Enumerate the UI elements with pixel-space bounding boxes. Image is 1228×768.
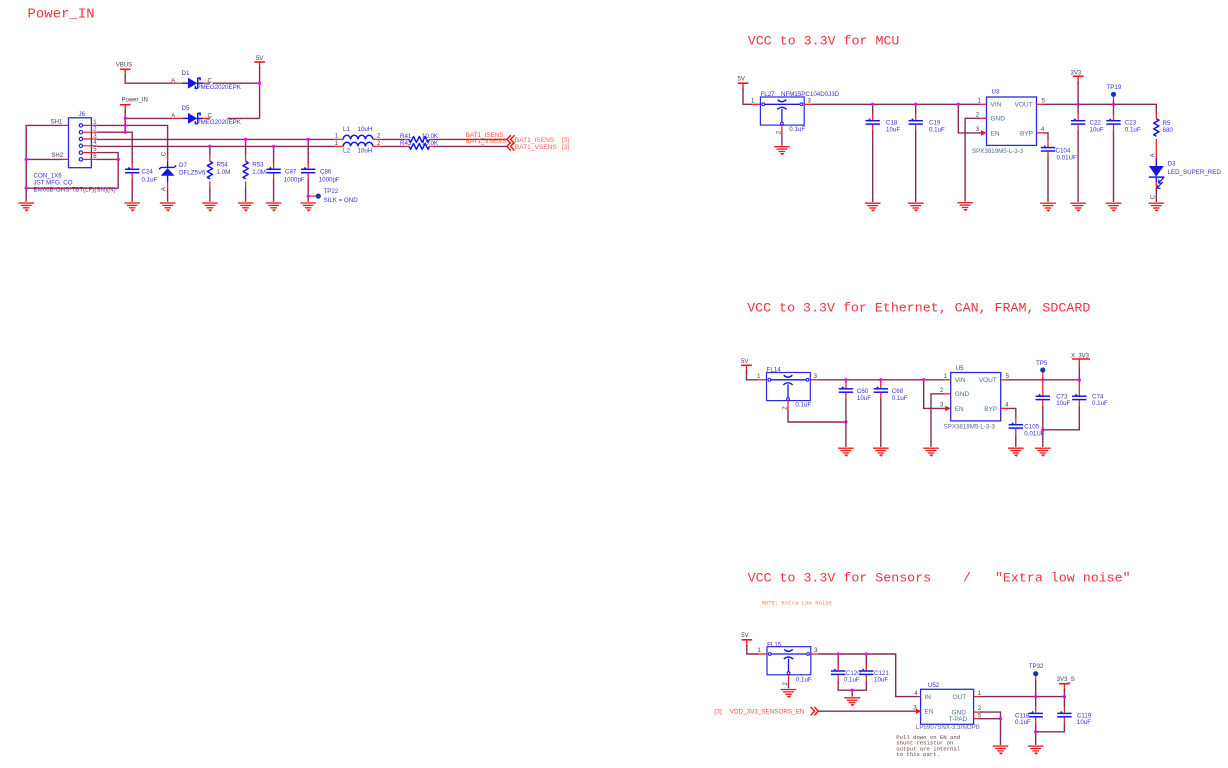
- wire BYP to C104: [1043, 133, 1048, 141]
- svg-text:C24: C24: [142, 169, 154, 176]
- svg-text:1: 1: [335, 133, 339, 139]
- svg-text:C: C: [1151, 194, 1157, 199]
- resistor R53 1.0M: [243, 155, 266, 187]
- resistor R43 10.0K: [400, 140, 439, 149]
- wire C73 to ground: [1042, 406, 1044, 447]
- power flag 3V3: [1071, 71, 1084, 84]
- wire VBUS to D1 anode: [125, 76, 172, 84]
- ground C68: [873, 448, 889, 456]
- svg-text:5V: 5V: [738, 77, 745, 83]
- wire R54 to ground: [209, 188, 211, 202]
- junction X_3V3: [1078, 378, 1081, 381]
- svg-text:10uF: 10uF: [857, 395, 871, 402]
- ground C73: [1035, 448, 1051, 456]
- port VDD_3V3_SENSORS_EN: [714, 707, 818, 716]
- svg-text:LED_SUPER_RED: LED_SUPER_RED: [1168, 169, 1222, 176]
- wire C120/C121 join to ground: [838, 681, 866, 697]
- svg-text:D5: D5: [182, 105, 190, 112]
- svg-text:J6: J6: [79, 111, 86, 118]
- wire Power_IN vertical: [125, 111, 172, 133]
- regulator U5 SPX3819M5-L-3-3: [940, 365, 1010, 431]
- svg-text:0.1uF: 0.1uF: [844, 677, 860, 684]
- ground C24: [124, 203, 140, 211]
- wire C60 to ground: [845, 399, 847, 448]
- wire C60 drop: [845, 380, 847, 383]
- wire C121 drop: [865, 654, 867, 667]
- svg-text:1: 1: [758, 648, 762, 654]
- wire VOUT rail: [1043, 104, 1157, 113]
- svg-text:A: A: [162, 187, 168, 191]
- svg-text:0.1uF: 0.1uF: [1125, 127, 1141, 134]
- wire 5V to FL15 pin1: [747, 646, 759, 654]
- wire C119 drop: [1063, 697, 1065, 708]
- wire X_3V3 stem: [1078, 366, 1080, 380]
- svg-text:2: 2: [377, 133, 381, 139]
- svg-text:A: A: [1151, 153, 1157, 157]
- ground C104: [1040, 203, 1056, 211]
- junction 3V3_S: [1063, 695, 1066, 698]
- ground FL27: [774, 147, 790, 155]
- svg-text:TP22: TP22: [324, 188, 339, 195]
- svg-text:[3]: [3]: [562, 137, 569, 144]
- svg-text:BAT1_VSENS: BAT1_VSENS: [515, 144, 558, 151]
- ground J6 shield: [18, 203, 34, 211]
- wire R54 drop: [209, 146, 211, 155]
- power flag Power_IN: [120, 98, 148, 112]
- ground C23: [1106, 203, 1122, 211]
- svg-text:[3]: [3]: [562, 144, 569, 151]
- wire FL15 pin2 to ground: [788, 683, 790, 689]
- capacitor C119 10uF: [1057, 707, 1092, 726]
- svg-text:SPX3819M5-L-3-3: SPX3819M5-L-3-3: [944, 424, 996, 431]
- junction cap join: [851, 689, 854, 692]
- wire C86 drop: [307, 139, 309, 163]
- svg-text:IN: IN: [925, 694, 932, 701]
- ground R54: [202, 203, 218, 211]
- ground C87: [266, 203, 282, 211]
- capacitor C105 0.01UF: [1009, 418, 1045, 437]
- wire C87 drop: [273, 146, 275, 163]
- svg-text:5V: 5V: [741, 359, 748, 365]
- svg-text:1: 1: [751, 99, 755, 105]
- wire bottom bus pin4 to L2: [97, 145, 334, 147]
- junction C87/bottom bus: [272, 145, 275, 148]
- wire R53 to ground: [245, 188, 247, 202]
- power flag 5V: [254, 56, 265, 69]
- svg-text:SPX3819M5-L-3-3: SPX3819M5-L-3-3: [972, 148, 1024, 155]
- ground U5: [923, 448, 939, 456]
- wire R41 to port BAT1_ISENS: [434, 138, 507, 140]
- wire FL27 to U3 VIN: [812, 103, 981, 105]
- svg-text:BYP: BYP: [984, 406, 997, 413]
- junction C119 tie: [1034, 730, 1037, 733]
- svg-text:C105: C105: [1024, 423, 1039, 430]
- svg-text:U3: U3: [992, 89, 1000, 96]
- wire EN tie to VIN: [958, 104, 981, 133]
- svg-text:1: 1: [978, 99, 982, 105]
- svg-text:C22: C22: [1090, 120, 1102, 127]
- wire C68 to ground: [880, 399, 882, 448]
- svg-text:10uF: 10uF: [874, 677, 888, 684]
- capacitor C118 0.1uF: [1015, 707, 1043, 726]
- svg-text:0.1uF: 0.1uF: [789, 126, 805, 133]
- wire R43 to port BAT1_VSENS: [434, 145, 507, 147]
- junction C60: [844, 378, 847, 381]
- junction C18: [871, 103, 874, 106]
- wire GND/T-PAD to ground: [979, 712, 1000, 745]
- junction T-PAD tie: [999, 717, 1002, 720]
- note pull down on EN: [896, 734, 960, 758]
- ground C22: [1070, 203, 1086, 211]
- ground C18: [865, 203, 881, 211]
- svg-text:C18: C18: [886, 120, 898, 127]
- LED D3 LED_SUPER_RED: [1149, 145, 1221, 199]
- junction EN tap: [957, 103, 960, 106]
- capacitor C120 0.1uF: [831, 665, 861, 684]
- wire C87 to ground: [273, 179, 275, 202]
- svg-text:BAT1_VSENS: BAT1_VSENS: [466, 138, 506, 145]
- wire FL14 pin2 elbow to C60 leg: [788, 409, 846, 422]
- ferrite filter FL27 NFM15PC104D0J3D: [751, 91, 840, 134]
- ground U52: [993, 746, 1009, 754]
- svg-text:1.0M: 1.0M: [217, 169, 231, 176]
- svg-text:VIN: VIN: [991, 102, 1002, 109]
- svg-text:1: 1: [757, 374, 761, 380]
- capacitor C73 10uF: [1036, 390, 1071, 407]
- ground C120/C121: [844, 698, 860, 706]
- wire 5V to FL27 pin1: [743, 90, 752, 105]
- power flag X_3V3: [1071, 353, 1090, 366]
- wire C18 drop: [872, 104, 874, 114]
- ground C86: [300, 203, 316, 211]
- wire L2 to R43: [382, 145, 405, 147]
- wire C118 drop: [1035, 697, 1037, 708]
- junction C86/top bus: [307, 138, 310, 141]
- wire C24 to ground: [131, 179, 133, 202]
- junction C120: [837, 652, 840, 655]
- wire C104 to ground: [1047, 157, 1049, 202]
- junction TP19: [1112, 103, 1115, 106]
- svg-text:0.1uF: 0.1uF: [1015, 719, 1031, 726]
- svg-text:OUT: OUT: [953, 694, 967, 701]
- wire C19 to ground: [915, 130, 917, 202]
- wire C73 drop: [1042, 380, 1044, 390]
- wire C118 to ground: [1035, 723, 1037, 745]
- capacitor C19 0.1uF: [909, 114, 946, 133]
- svg-text:VIN: VIN: [955, 377, 966, 384]
- junction R54/bottom bus: [208, 145, 211, 148]
- ground FL15: [781, 690, 797, 698]
- resistor R41 10.0K: [400, 133, 439, 142]
- wire C74 elbow to C73 leg: [1043, 406, 1080, 430]
- svg-text:4: 4: [914, 691, 918, 697]
- junction R53/top bus: [244, 138, 247, 141]
- zener diode D7 DFLZ5V6: [159, 151, 206, 191]
- ground C19: [908, 203, 924, 211]
- junction C68: [879, 378, 882, 381]
- svg-text:2: 2: [976, 113, 980, 119]
- junction C19: [914, 103, 917, 106]
- connector J6 CON_1X6: [34, 111, 116, 194]
- wire top bus pin3 to L1: [97, 138, 334, 140]
- wire C68 drop: [880, 380, 882, 383]
- svg-text:VDD_3V3_SENSORS_EN: VDD_3V3_SENSORS_EN: [730, 709, 805, 716]
- ground C118: [1028, 746, 1044, 754]
- regulator U3 SPX3819M5-L-3-3: [972, 89, 1046, 156]
- svg-text:10uF: 10uF: [1056, 400, 1070, 407]
- wire R53 drop: [245, 139, 247, 155]
- junction loop bottom: [25, 187, 28, 190]
- svg-text:[3]: [3]: [714, 709, 721, 716]
- svg-text:C60: C60: [857, 388, 869, 395]
- capacitor C87 1000pF: [266, 163, 305, 183]
- power flag VBUS: [116, 63, 132, 77]
- svg-text:5V: 5V: [741, 633, 748, 639]
- wire BYP to C105: [1007, 408, 1016, 418]
- ground D7: [160, 203, 176, 211]
- svg-text:VBUS: VBUS: [116, 63, 132, 69]
- power flag 5V (Ethernet): [741, 359, 752, 372]
- junction pin1/Power_IN: [124, 124, 127, 127]
- junction TP32: [1034, 695, 1037, 698]
- svg-text:EN: EN: [991, 130, 1000, 137]
- svg-text:0.01UF: 0.01UF: [1057, 155, 1078, 162]
- svg-text:LP5907SNX-3.3/NOPB: LP5907SNX-3.3/NOPB: [916, 724, 980, 731]
- wire C120 drop: [837, 654, 839, 667]
- svg-text:Power_IN: Power_IN: [28, 6, 95, 22]
- ferrite filter FL15: [758, 641, 819, 685]
- test point TP22: [307, 188, 359, 204]
- wire FL27 pin2 to ground: [781, 133, 783, 145]
- capacitor C104 0.01UF: [1041, 141, 1077, 161]
- svg-text:JST MFG. CO: JST MFG. CO: [34, 180, 73, 187]
- junction 5V/D1: [258, 82, 261, 85]
- junction Power_IN/D5: [124, 117, 127, 120]
- ground C105: [1008, 448, 1024, 456]
- wire FL15 to U52 IN: [818, 654, 917, 697]
- svg-text:NOTE: Extra Low Noise: NOTE: Extra Low Noise: [762, 599, 833, 606]
- svg-text:0.1uF: 0.1uF: [795, 402, 811, 409]
- wire L1 to R41: [382, 138, 405, 140]
- svg-text:D3: D3: [1168, 160, 1176, 167]
- wire pin1 to Power_IN and D7: [97, 125, 168, 160]
- wire C18 to ground: [872, 130, 874, 202]
- diode D1 PMEG2020EPK: [171, 70, 241, 91]
- capacitor C68 0.1uF: [874, 383, 908, 402]
- svg-text:0.01UF: 0.01UF: [1024, 430, 1045, 437]
- junction pin2/Power_IN: [124, 131, 127, 134]
- svg-text:SH2: SH2: [51, 153, 63, 159]
- svg-text:0.1uF: 0.1uF: [929, 127, 945, 134]
- svg-text:FL14: FL14: [767, 367, 782, 374]
- svg-text:C19: C19: [929, 120, 941, 127]
- svg-text:1: 1: [944, 374, 948, 380]
- power flag 5V (MCU): [738, 77, 749, 91]
- svg-text:5: 5: [1042, 99, 1046, 105]
- svg-text:T-PAD: T-PAD: [949, 716, 968, 723]
- svg-text:10uH: 10uH: [358, 126, 373, 133]
- svg-text:R41: R41: [400, 133, 412, 140]
- off-page connector BAT1_VSENS: [507, 142, 569, 151]
- capacitor C18 10uF: [866, 114, 901, 133]
- wire C105 to ground: [1015, 434, 1017, 447]
- wire U5 GND to ground: [931, 394, 944, 447]
- power flag 5V (Sensors): [741, 633, 752, 647]
- capacitor C121 10uF: [859, 665, 889, 684]
- svg-text:VOUT: VOUT: [1015, 102, 1033, 109]
- svg-text:EN: EN: [955, 406, 964, 413]
- svg-text:C86: C86: [320, 169, 332, 176]
- svg-text:R53: R53: [252, 161, 264, 168]
- ground C60/FL14: [838, 448, 854, 456]
- svg-text:3: 3: [808, 99, 812, 105]
- svg-text:10uF: 10uF: [1090, 127, 1104, 134]
- svg-text:3: 3: [814, 648, 818, 654]
- svg-text:SILK = GND: SILK = GND: [324, 197, 359, 204]
- svg-text:GND: GND: [955, 391, 970, 398]
- wire C86 to ground: [307, 179, 309, 202]
- test point TP5: [1036, 360, 1048, 380]
- capacitor C23 0.1uF: [1106, 114, 1141, 133]
- svg-text:FL27: FL27: [761, 91, 776, 98]
- wire C22 drop: [1077, 104, 1079, 114]
- svg-text:VCC to 3.3V for Sensors /: VCC to 3.3V for Sensors / "Extra low noi…: [748, 570, 1131, 585]
- capacitor C24: [125, 163, 158, 183]
- svg-text:0.1uF: 0.1uF: [142, 176, 158, 183]
- wire D7 to ground: [167, 188, 169, 202]
- ground D3: [1149, 203, 1165, 211]
- svg-text:R54: R54: [217, 161, 229, 168]
- wire SH1/SH2 ground loop: [26, 125, 118, 201]
- svg-text:PMEG2020EPK: PMEG2020EPK: [197, 119, 242, 126]
- svg-text:NFM15PC104D0J3D: NFM15PC104D0J3D: [781, 91, 840, 98]
- junction C74 tie: [1041, 428, 1044, 431]
- svg-text:to this part.: to this part.: [896, 751, 940, 758]
- wire U3 GND to ground: [965, 118, 980, 201]
- svg-text:L1: L1: [343, 126, 350, 133]
- svg-text:U5: U5: [956, 365, 964, 372]
- junction FL14 gnd tie: [844, 420, 847, 423]
- wire pin2 to C24: [97, 132, 132, 163]
- capacitor C60 10uF: [839, 383, 872, 402]
- resistor R5 680: [1154, 113, 1174, 145]
- wire 5V vertical to D1 and D5 rows: [213, 68, 260, 118]
- svg-text:2: 2: [978, 706, 982, 712]
- wire D3 to ground: [1155, 189, 1157, 203]
- diode D5 PMEG2020EPK: [171, 105, 241, 126]
- junction TP5: [1041, 378, 1044, 381]
- svg-text:C104: C104: [1056, 148, 1071, 155]
- wire C19 drop: [915, 104, 917, 114]
- test point TP32: [1029, 663, 1044, 697]
- junction EN tap U5: [922, 378, 925, 381]
- svg-text:0.1uF: 0.1uF: [1092, 400, 1108, 407]
- wire C22 to ground: [1077, 130, 1079, 202]
- svg-text:10uF: 10uF: [1077, 719, 1091, 726]
- wire C74 drop: [1078, 380, 1080, 390]
- svg-text:TP5: TP5: [1036, 360, 1048, 367]
- svg-text:FL15: FL15: [767, 641, 782, 648]
- junction pin6: [117, 158, 120, 161]
- regulator U52 LP5907SNX-3.3/NOPB: [913, 682, 982, 731]
- svg-text:VCC to 3.3V for Ethernet, CAN,: VCC to 3.3V for Ethernet, CAN, FRAM, SDC…: [747, 300, 1090, 315]
- junction 3V3: [1076, 103, 1079, 106]
- svg-text:TP32: TP32: [1029, 663, 1044, 670]
- svg-text:3: 3: [814, 374, 818, 380]
- svg-text:VCC to 3.3V for MCU: VCC to 3.3V for MCU: [748, 34, 900, 49]
- wire VOUT rail (U5): [1007, 379, 1079, 381]
- svg-text:L2: L2: [343, 148, 350, 155]
- svg-text:3V3_S: 3V3_S: [1057, 677, 1075, 683]
- wire EN tie (U5): [924, 380, 946, 409]
- svg-text:CON_1X6: CON_1X6: [34, 173, 63, 180]
- svg-text:680: 680: [1163, 127, 1174, 134]
- svg-text:BYP: BYP: [1020, 130, 1033, 137]
- wire C23 to ground: [1113, 130, 1115, 202]
- svg-text:10uH: 10uH: [358, 148, 373, 155]
- inductor L2 10uH: [334, 141, 381, 155]
- svg-text:1000pF: 1000pF: [284, 176, 305, 183]
- wire EN net: [818, 710, 916, 712]
- svg-text:1.0M: 1.0M: [252, 169, 266, 176]
- svg-text:GND: GND: [991, 116, 1006, 123]
- svg-text:A: A: [171, 114, 175, 120]
- svg-text:0.1uF: 0.1uF: [796, 677, 812, 684]
- svg-text:C87: C87: [285, 169, 297, 176]
- svg-text:Power_IN: Power_IN: [122, 98, 148, 104]
- svg-text:A: A: [171, 78, 175, 84]
- wire C23 drop: [1113, 104, 1115, 114]
- wire 3V3 stem: [1077, 83, 1079, 105]
- svg-text:C: C: [162, 151, 168, 156]
- capacitor C86 1000pF: [301, 163, 340, 183]
- capacitor C74 0.1uF: [1072, 390, 1108, 407]
- svg-text:VOUT: VOUT: [979, 377, 997, 384]
- wire OUT rail: [979, 696, 1064, 698]
- svg-text:D7: D7: [179, 162, 187, 169]
- svg-text:BAT1_ISENS: BAT1_ISENS: [515, 137, 555, 144]
- inductor L1 10uH: [334, 126, 381, 139]
- ground U3: [957, 203, 973, 211]
- capacitor C22 10uF: [1071, 114, 1104, 133]
- wire 3V3_S stem: [1063, 690, 1065, 697]
- svg-text:TP19: TP19: [1107, 84, 1122, 91]
- wire C119 elbow to C118 leg: [1036, 723, 1065, 732]
- svg-text:C68: C68: [892, 388, 904, 395]
- svg-text:DFLZ5V6: DFLZ5V6: [179, 170, 206, 177]
- svg-text:R5: R5: [1163, 120, 1171, 127]
- test point TP19: [1107, 84, 1122, 105]
- resistor R54 1.0M: [207, 155, 230, 187]
- svg-text:0.1uF: 0.1uF: [892, 395, 908, 402]
- svg-text:10uF: 10uF: [886, 127, 900, 134]
- svg-text:C23: C23: [1125, 120, 1137, 127]
- svg-text:5V: 5V: [256, 56, 263, 62]
- ferrite filter FL14: [757, 367, 818, 410]
- wire 5V to FL14 pin1: [747, 372, 759, 380]
- off-page connector BAT1_ISENS: [507, 135, 569, 144]
- svg-text:U52: U52: [928, 682, 940, 689]
- power flag 3V3_S: [1057, 677, 1075, 691]
- svg-text:1000pF: 1000pF: [319, 176, 340, 183]
- svg-text:PMEG2020EPK: PMEG2020EPK: [197, 84, 242, 91]
- svg-text:R43: R43: [400, 140, 412, 147]
- svg-text:EN: EN: [925, 709, 934, 716]
- junction SH2: [25, 158, 28, 161]
- ground R53: [238, 203, 254, 211]
- junction C121: [865, 652, 868, 655]
- svg-text:D1: D1: [182, 70, 190, 77]
